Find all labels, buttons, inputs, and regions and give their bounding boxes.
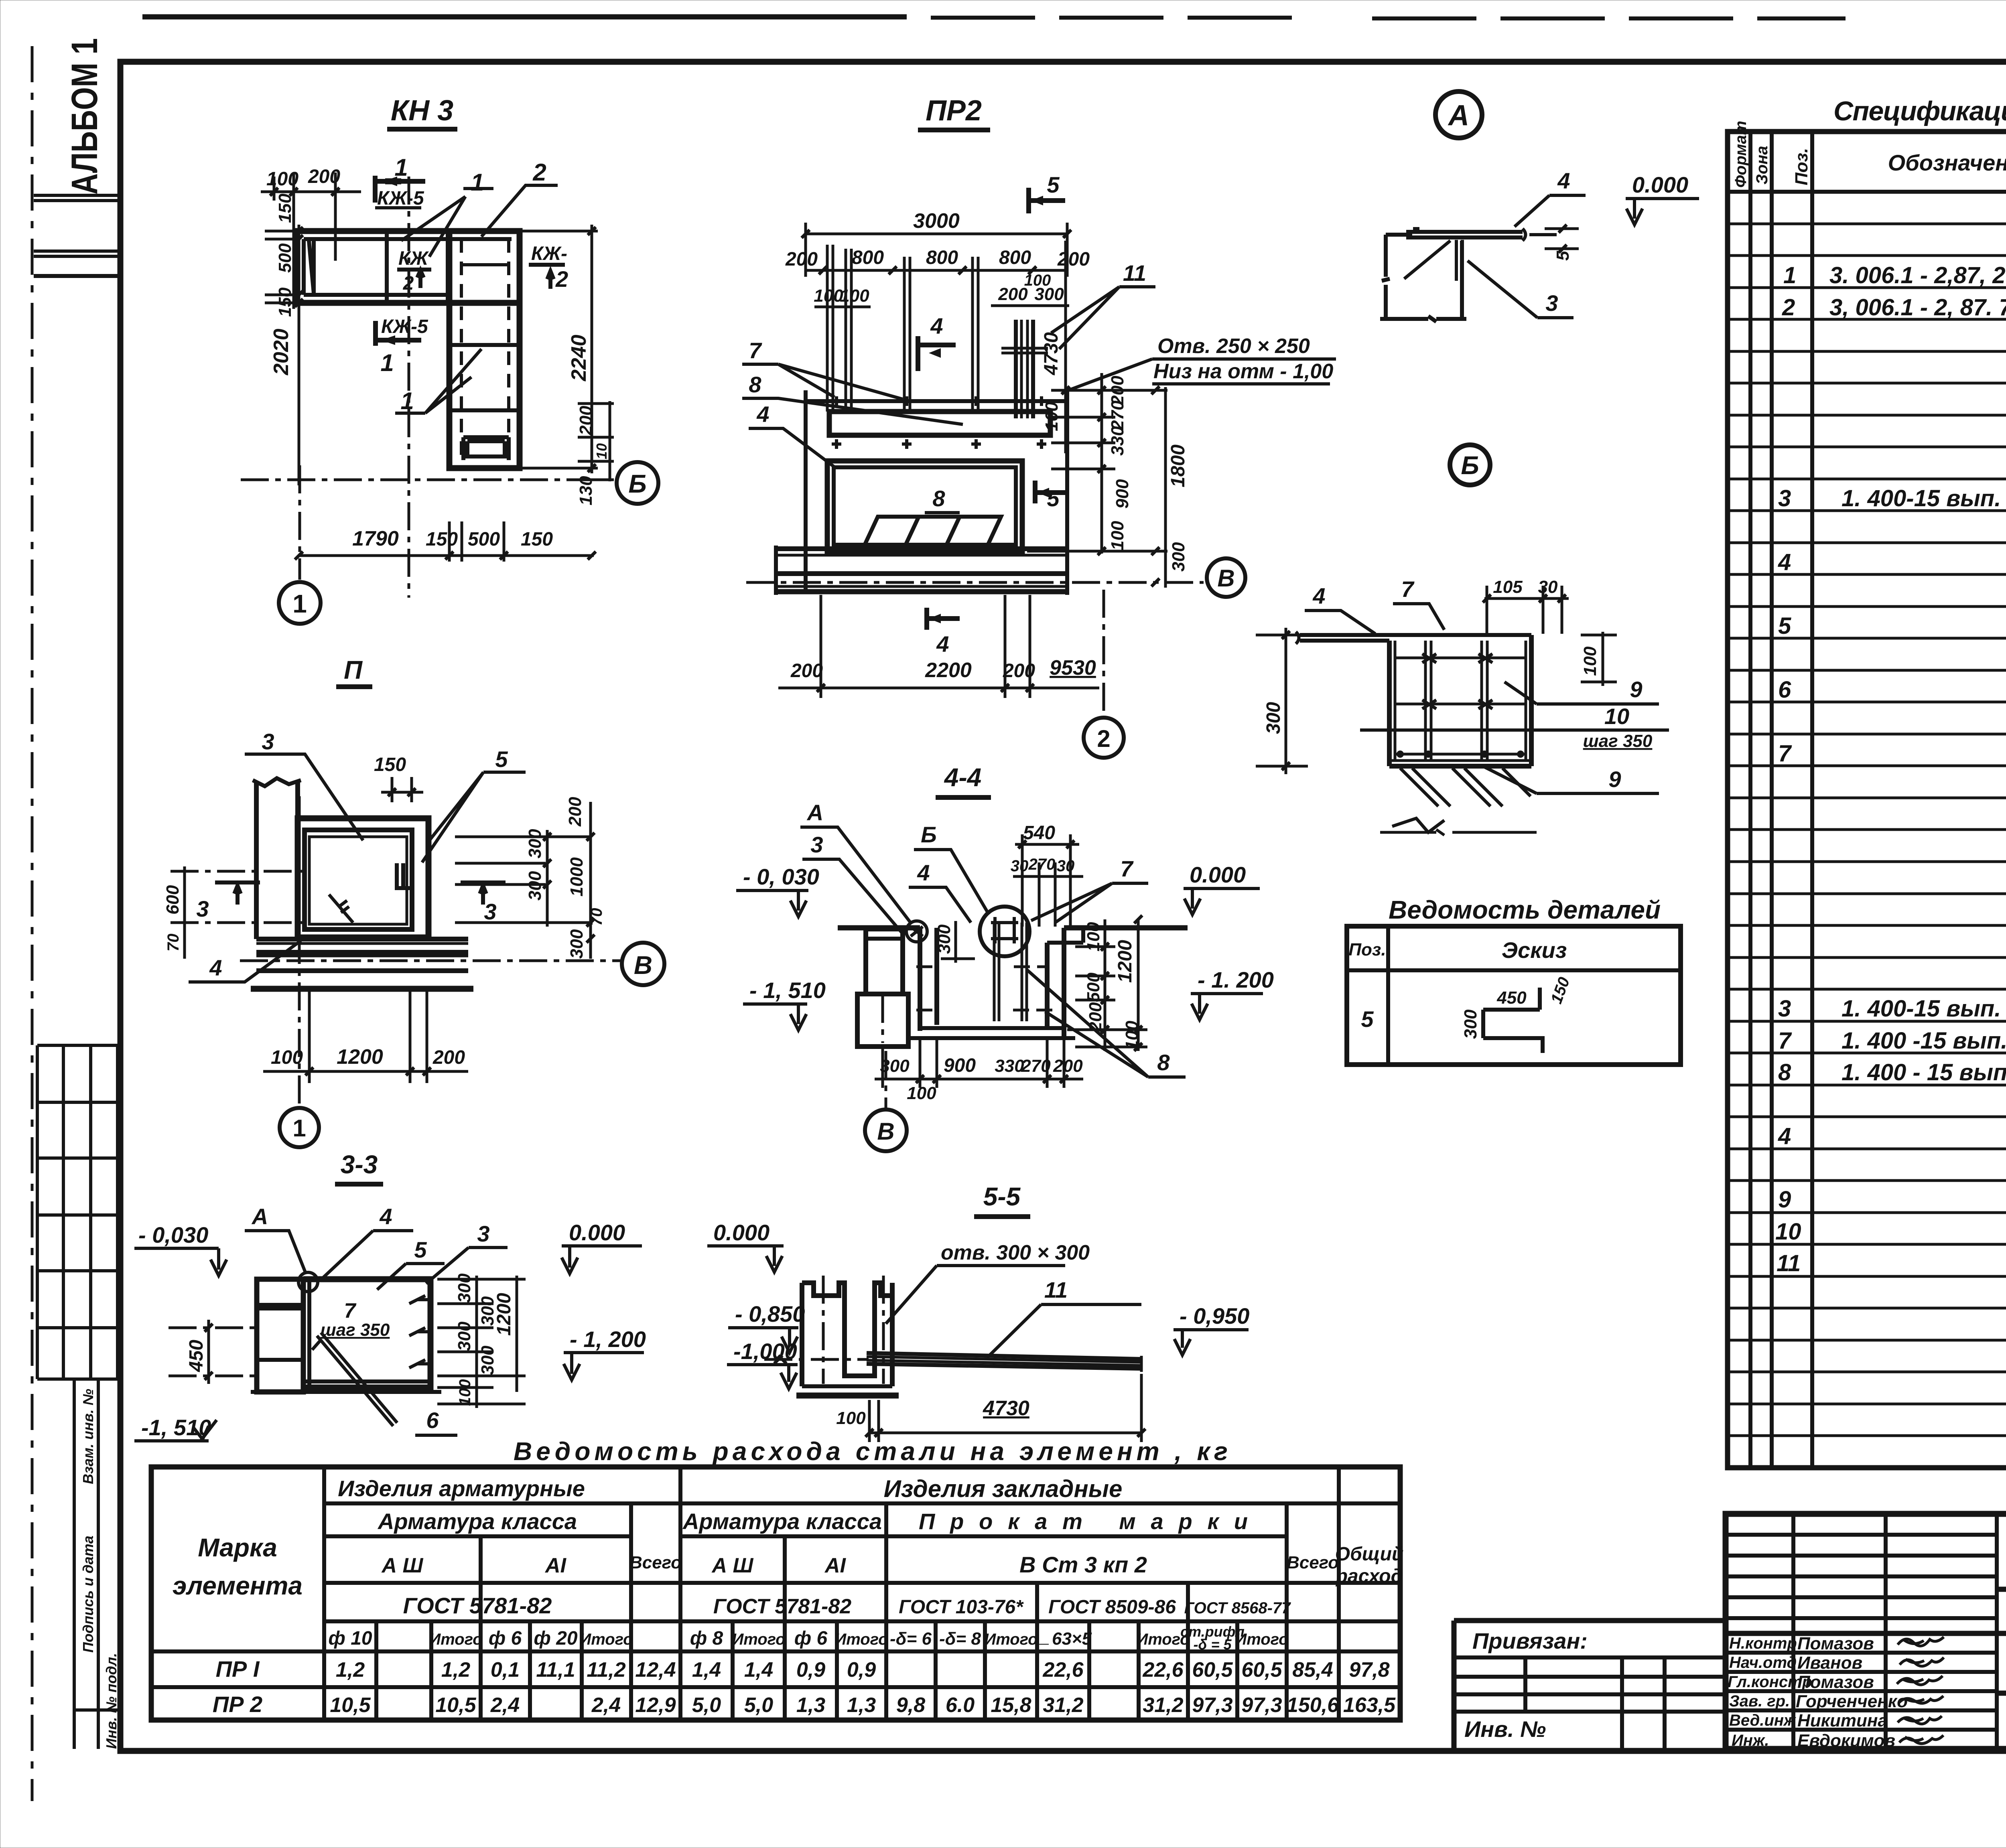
svg-text:1800: 1800 <box>1167 444 1189 487</box>
svg-text:ф 8: ф 8 <box>690 1628 723 1649</box>
svg-text:3: 3 <box>196 896 209 921</box>
svg-text:2020: 2020 <box>270 329 293 375</box>
svg-text:ф 6: ф 6 <box>489 1628 522 1649</box>
svg-text:8: 8 <box>932 486 945 511</box>
svg-text:163,5: 163,5 <box>1343 1694 1396 1717</box>
svg-text:3: 3 <box>1545 290 1558 316</box>
svg-text:- 0, 030: - 0, 030 <box>743 864 819 889</box>
svg-text:Спецификация канала КН3, пр: Спецификация канала КН3, приямков ПР1, П… <box>1833 96 2006 126</box>
svg-text:А: А <box>1448 99 1469 132</box>
svg-text:3: 3 <box>477 1221 489 1246</box>
svg-text:300: 300 <box>1263 702 1284 734</box>
svg-text:97,3: 97,3 <box>1192 1694 1232 1717</box>
svg-text:ГОСТ 5781-82: ГОСТ 5781-82 <box>713 1595 851 1618</box>
svg-text:АI: АI <box>544 1554 567 1577</box>
svg-text:2: 2 <box>1097 725 1110 752</box>
svg-text:2: 2 <box>1782 294 1795 321</box>
svg-text:5: 5 <box>1553 251 1573 261</box>
svg-text:330: 330 <box>995 1056 1024 1076</box>
svg-text:Изделия закладные: Изделия закладные <box>884 1475 1123 1502</box>
svg-text:15,8: 15,8 <box>991 1694 1031 1717</box>
svg-text:200: 200 <box>785 249 818 270</box>
svg-text:100: 100 <box>1108 521 1127 550</box>
svg-text:7: 7 <box>1778 1028 1792 1054</box>
svg-text:8: 8 <box>1157 1050 1170 1075</box>
svg-text:5: 5 <box>1047 172 1060 197</box>
svg-text:3: 3 <box>810 832 823 857</box>
svg-text:ПР2: ПР2 <box>926 95 982 127</box>
svg-text:800: 800 <box>926 247 958 268</box>
svg-text:300: 300 <box>455 1273 474 1303</box>
svg-text:∟63×5: ∟63×5 <box>1035 1629 1092 1649</box>
svg-text:150: 150 <box>275 193 295 223</box>
svg-text:- 1, 200: - 1, 200 <box>570 1327 646 1352</box>
svg-text:Итого: Итого <box>834 1631 888 1648</box>
svg-text:ПР 2: ПР 2 <box>213 1692 262 1717</box>
svg-text:1. 400 -15 вып. 1: 1. 400 -15 вып. 1 <box>1842 1028 2006 1054</box>
svg-text:500: 500 <box>1084 972 1103 1002</box>
svg-text:3: 3 <box>1778 485 1791 511</box>
svg-text:Поз.: Поз. <box>1348 940 1386 959</box>
svg-text:1200: 1200 <box>493 1293 515 1336</box>
svg-text:Горченченко: Горченченко <box>1796 1692 1908 1711</box>
svg-text:1: 1 <box>471 169 484 196</box>
svg-text:1,4: 1,4 <box>692 1658 721 1682</box>
svg-text:4730: 4730 <box>1041 332 1062 375</box>
svg-text:11,1: 11,1 <box>536 1658 575 1682</box>
svg-text:5,0: 5,0 <box>744 1694 773 1717</box>
svg-text:Б: Б <box>628 469 646 498</box>
svg-text:- 1. 200: - 1. 200 <box>1198 967 1274 992</box>
svg-text:2: 2 <box>555 266 568 292</box>
svg-text:800: 800 <box>999 247 1031 268</box>
svg-text:5: 5 <box>414 1237 427 1262</box>
svg-text:шаг 350: шаг 350 <box>1583 731 1653 751</box>
svg-text:200: 200 <box>1053 1056 1083 1076</box>
svg-text:3: 3 <box>1778 996 1791 1022</box>
svg-text:1: 1 <box>292 589 307 618</box>
svg-text:1. 400-15 вып. 1: 1. 400-15 вып. 1 <box>1842 485 2006 511</box>
svg-text:11: 11 <box>1123 260 1146 286</box>
svg-text:5: 5 <box>495 747 508 772</box>
svg-text:800: 800 <box>852 247 884 268</box>
svg-text:1. 400-15 вып. 1: 1. 400-15 вып. 1 <box>1842 996 2006 1022</box>
svg-text:элемента: элемента <box>173 1571 303 1600</box>
svg-text:2240: 2240 <box>567 335 591 381</box>
svg-text:300: 300 <box>934 924 954 954</box>
svg-text:4: 4 <box>917 860 930 885</box>
svg-text:150: 150 <box>1547 975 1573 1006</box>
svg-text:6.0: 6.0 <box>946 1694 975 1717</box>
svg-text:1: 1 <box>292 1115 306 1142</box>
svg-text:9: 9 <box>1778 1187 1791 1213</box>
svg-text:300: 300 <box>455 1321 474 1351</box>
svg-text:Зав. гр.: Зав. гр. <box>1729 1692 1790 1710</box>
svg-text:31,2: 31,2 <box>1043 1694 1083 1717</box>
svg-text:Подпись и дата: Подпись и дата <box>80 1536 96 1653</box>
svg-text:4: 4 <box>1778 549 1791 575</box>
svg-text:4: 4 <box>1557 168 1570 193</box>
svg-text:97,8: 97,8 <box>1349 1658 1389 1682</box>
svg-text:7: 7 <box>1778 740 1792 767</box>
svg-text:П: П <box>344 655 363 684</box>
svg-text:ф 6: ф 6 <box>794 1628 828 1649</box>
svg-text:Общий: Общий <box>1335 1544 1404 1565</box>
svg-text:Зона: Зона <box>1753 146 1771 185</box>
svg-text:10,5: 10,5 <box>330 1694 371 1717</box>
svg-text:9: 9 <box>1630 677 1642 702</box>
svg-text:150: 150 <box>521 529 553 550</box>
svg-text:3, 006.1 - 2, 87. 7: 3, 006.1 - 2, 87. 7 <box>1829 294 2006 321</box>
svg-text:22,6: 22,6 <box>1042 1658 1084 1682</box>
svg-text:4: 4 <box>379 1204 392 1229</box>
svg-text:200: 200 <box>565 797 585 827</box>
svg-text:отв. 300 × 300: отв. 300 × 300 <box>941 1241 1090 1264</box>
svg-text:4: 4 <box>209 955 222 980</box>
svg-text:150: 150 <box>275 287 295 317</box>
svg-text:Итого: Итого <box>429 1631 482 1648</box>
svg-text:АI: АI <box>824 1554 847 1577</box>
svg-text:9: 9 <box>1608 767 1621 792</box>
svg-text:Евдокимов: Евдокимов <box>1797 1731 1895 1751</box>
svg-text:В Ст 3 кп 2: В Ст 3 кп 2 <box>1019 1552 1147 1577</box>
svg-text:200: 200 <box>790 660 823 682</box>
svg-text:105: 105 <box>1493 577 1523 597</box>
svg-text:300: 300 <box>880 1056 910 1076</box>
svg-text:Всего: Всего <box>629 1553 682 1572</box>
svg-text:100: 100 <box>1084 922 1103 951</box>
svg-text:1: 1 <box>380 349 394 376</box>
svg-text:100: 100 <box>836 1408 866 1428</box>
svg-text:- 1, 510: - 1, 510 <box>749 978 826 1003</box>
svg-text:8: 8 <box>749 372 761 397</box>
svg-text:-1,000: -1,000 <box>733 1339 797 1364</box>
svg-text:1,4: 1,4 <box>744 1658 773 1682</box>
svg-text:Б: Б <box>1461 451 1479 480</box>
svg-text:1200: 1200 <box>337 1045 383 1069</box>
svg-text:9530: 9530 <box>1050 656 1096 680</box>
svg-text:10: 10 <box>593 443 610 459</box>
svg-text:300: 300 <box>1461 1009 1480 1039</box>
svg-text:Поз.: Поз. <box>1792 148 1811 185</box>
svg-text:3: 3 <box>484 899 496 924</box>
svg-text:А Ш: А Ш <box>711 1554 754 1577</box>
svg-text:Ведомость деталей: Ведомость деталей <box>1389 895 1661 924</box>
svg-text:Всего: Всего <box>1287 1553 1339 1572</box>
svg-text:10: 10 <box>1604 704 1629 729</box>
svg-text:Формат: Формат <box>1732 121 1750 188</box>
svg-text:ГОСТ 8568-77: ГОСТ 8568-77 <box>1184 1599 1291 1617</box>
svg-text:-δ = 5: -δ = 5 <box>1193 1636 1232 1653</box>
svg-text:540: 540 <box>1023 822 1055 844</box>
svg-text:11: 11 <box>1777 1250 1801 1276</box>
svg-text:В: В <box>877 1118 894 1145</box>
svg-text:0.000: 0.000 <box>569 1220 625 1245</box>
svg-text:60,5: 60,5 <box>1241 1658 1282 1682</box>
svg-text:70: 70 <box>164 934 182 952</box>
svg-text:шаг 350: шаг 350 <box>321 1320 390 1340</box>
svg-text:3000: 3000 <box>913 209 960 233</box>
svg-text:150: 150 <box>374 754 406 775</box>
svg-text:ф 20: ф 20 <box>534 1628 578 1649</box>
svg-text:100: 100 <box>456 1379 474 1406</box>
svg-text:5-5: 5-5 <box>983 1182 1021 1211</box>
svg-text:8: 8 <box>1778 1059 1791 1085</box>
svg-text:450: 450 <box>1496 988 1527 1008</box>
svg-text:10: 10 <box>1775 1219 1801 1245</box>
svg-text:12,4: 12,4 <box>635 1658 676 1682</box>
svg-text:4: 4 <box>930 313 943 339</box>
svg-text:270: 270 <box>1021 1056 1051 1076</box>
svg-text:22,6: 22,6 <box>1142 1658 1184 1682</box>
svg-text:-δ= 8: -δ= 8 <box>939 1629 981 1649</box>
svg-text:В: В <box>634 951 652 980</box>
svg-text:ГОСТ 103-76*: ГОСТ 103-76* <box>899 1596 1024 1618</box>
svg-text:150,6: 150,6 <box>1287 1694 1339 1717</box>
svg-text:2: 2 <box>532 159 546 186</box>
svg-text:Арматура класса: Арматура класса <box>682 1509 882 1534</box>
svg-text:1000: 1000 <box>567 857 587 897</box>
svg-text:1200: 1200 <box>1115 940 1136 983</box>
svg-text:КЖ-5: КЖ-5 <box>377 188 424 209</box>
svg-text:6: 6 <box>1778 677 1791 703</box>
svg-text:900: 900 <box>1113 479 1132 509</box>
svg-text:1790: 1790 <box>352 527 399 550</box>
svg-text:0.000: 0.000 <box>1632 172 1688 197</box>
svg-text:Б: Б <box>921 822 937 847</box>
svg-text:- 0,950: - 0,950 <box>1180 1303 1249 1329</box>
svg-text:7: 7 <box>344 1299 357 1323</box>
svg-text:ф 10: ф 10 <box>328 1628 372 1649</box>
svg-text:300: 300 <box>478 1345 497 1375</box>
svg-text:270: 270 <box>1028 856 1056 873</box>
svg-text:Арматура класса: Арматура класса <box>377 1509 577 1534</box>
svg-text:4-4: 4-4 <box>944 763 982 792</box>
svg-text:300: 300 <box>567 929 587 959</box>
svg-text:1: 1 <box>1783 262 1796 288</box>
svg-text:500: 500 <box>275 243 295 273</box>
svg-text:6: 6 <box>426 1408 439 1433</box>
svg-text:Иванов: Иванов <box>1797 1653 1862 1673</box>
svg-text:0,9: 0,9 <box>847 1658 876 1682</box>
svg-text:Итого: Итого <box>984 1631 1038 1648</box>
svg-text:Отв. 250 × 250: Отв. 250 × 250 <box>1157 335 1310 358</box>
svg-text:4: 4 <box>1778 1123 1791 1149</box>
svg-text:ГОСТ 5781-82: ГОСТ 5781-82 <box>403 1593 552 1618</box>
svg-text:500: 500 <box>468 529 500 550</box>
svg-text:200: 200 <box>1057 249 1090 270</box>
svg-text:1,3: 1,3 <box>847 1694 876 1717</box>
svg-text:200: 200 <box>1086 1002 1105 1032</box>
svg-text:100: 100 <box>840 286 869 306</box>
svg-text:1,2: 1,2 <box>336 1658 365 1682</box>
svg-text:600: 600 <box>163 885 183 915</box>
svg-text:Никитина: Никитина <box>1797 1711 1888 1730</box>
svg-text:1: 1 <box>400 387 414 414</box>
svg-text:150: 150 <box>426 529 458 550</box>
svg-text:Обозначение: Обозначение <box>1888 150 2006 175</box>
svg-text:5,0: 5,0 <box>692 1694 721 1717</box>
svg-text:4: 4 <box>1312 583 1325 609</box>
svg-text:270: 270 <box>1108 400 1127 430</box>
svg-text:12,9: 12,9 <box>635 1694 676 1717</box>
svg-text:Н.контр: Н.контр <box>1729 1635 1797 1652</box>
svg-text:КЖ-: КЖ- <box>531 243 567 264</box>
svg-text:2,4: 2,4 <box>490 1694 520 1717</box>
svg-text:11: 11 <box>1044 1277 1068 1302</box>
svg-text:4: 4 <box>756 402 769 427</box>
svg-text:30: 30 <box>1538 577 1558 597</box>
svg-text:1: 1 <box>394 154 408 181</box>
svg-text:- 0,850: - 0,850 <box>735 1301 805 1327</box>
svg-text:А: А <box>806 800 823 825</box>
svg-text:Прокат марки: Прокат марки <box>919 1509 1248 1534</box>
svg-text:Инв. № подл.: Инв. № подл. <box>103 1653 120 1749</box>
svg-text:- 0,030: - 0,030 <box>138 1222 208 1248</box>
svg-text:Итого: Итого <box>732 1631 785 1648</box>
svg-text:В: В <box>1217 565 1234 592</box>
svg-text:450: 450 <box>186 1340 207 1372</box>
svg-text:3-3: 3-3 <box>341 1150 378 1179</box>
svg-text:-δ= 6: -δ= 6 <box>890 1629 932 1649</box>
svg-text:85,4: 85,4 <box>1292 1658 1333 1682</box>
svg-text:Вед.инж: Вед.инж <box>1729 1712 1797 1729</box>
svg-text:2,4: 2,4 <box>591 1694 621 1717</box>
svg-text:Привязан:: Привязан: <box>1472 1628 1588 1653</box>
svg-text:4730: 4730 <box>983 1397 1029 1420</box>
svg-text:5: 5 <box>1361 1006 1374 1032</box>
svg-text:Взам. инв. №: Взам. инв. № <box>80 1389 96 1484</box>
svg-text:АЛЬБОМ 1: АЛЬБОМ 1 <box>64 38 105 195</box>
svg-text:КЖ-5: КЖ-5 <box>381 316 428 337</box>
svg-text:Эскиз: Эскиз <box>1502 937 1567 963</box>
svg-text:5: 5 <box>1047 486 1060 511</box>
svg-text:60,5: 60,5 <box>1192 1658 1233 1682</box>
svg-text:Нач.отд: Нач.отд <box>1729 1654 1797 1672</box>
svg-text:30: 30 <box>1011 857 1029 875</box>
svg-text:97,3: 97,3 <box>1241 1694 1282 1717</box>
svg-text:7: 7 <box>1120 856 1134 881</box>
svg-text:10,5: 10,5 <box>435 1694 476 1717</box>
svg-text:200: 200 <box>1003 660 1035 682</box>
svg-text:200: 200 <box>998 284 1028 304</box>
svg-text:Марка: Марка <box>198 1533 277 1562</box>
svg-text:0.000: 0.000 <box>713 1220 770 1245</box>
svg-text:7: 7 <box>749 338 762 363</box>
svg-text:1,2: 1,2 <box>441 1658 470 1682</box>
svg-text:900: 900 <box>944 1055 976 1076</box>
svg-text:1,3: 1,3 <box>796 1694 825 1717</box>
svg-text:11,2: 11,2 <box>587 1658 625 1682</box>
svg-text:КН 3: КН 3 <box>391 95 453 127</box>
svg-text:5: 5 <box>1778 613 1791 639</box>
svg-text:200: 200 <box>576 406 596 436</box>
svg-text:30: 30 <box>1057 857 1075 875</box>
svg-text:100: 100 <box>907 1083 936 1103</box>
svg-text:4: 4 <box>936 631 949 657</box>
svg-text:Итого: Итого <box>1235 1631 1288 1648</box>
svg-text:ГОСТ 8509-86: ГОСТ 8509-86 <box>1048 1596 1176 1618</box>
svg-text:300: 300 <box>525 829 545 858</box>
svg-text:1. 400 - 15 вып. 1: 1. 400 - 15 вып. 1 <box>1842 1059 2006 1085</box>
svg-text:0,9: 0,9 <box>796 1658 825 1682</box>
svg-text:Низ на отм - 1,00: Низ на отм - 1,00 <box>1153 360 1333 383</box>
svg-text:Изделия арматурные: Изделия арматурные <box>338 1476 585 1501</box>
svg-text:100: 100 <box>1580 646 1600 676</box>
svg-text:А: А <box>251 1204 268 1229</box>
svg-text:ПР I: ПР I <box>216 1656 260 1682</box>
svg-text:Инж.: Инж. <box>1732 1732 1769 1749</box>
svg-text:0,1: 0,1 <box>491 1658 520 1682</box>
svg-text:200: 200 <box>432 1047 465 1068</box>
svg-text:Помазов: Помазов <box>1797 1634 1874 1653</box>
svg-text:Инв. №: Инв. № <box>1464 1716 1546 1742</box>
svg-text:3. 006.1 - 2,87, 2-5: 3. 006.1 - 2,87, 2-5 <box>1829 262 2006 288</box>
svg-text:0.000: 0.000 <box>1190 862 1246 887</box>
svg-text:Итого: Итого <box>579 1631 633 1648</box>
svg-text:Помазов: Помазов <box>1797 1672 1874 1692</box>
svg-text:3: 3 <box>262 729 274 754</box>
svg-text:9,8: 9,8 <box>896 1694 925 1717</box>
svg-text:расход: расход <box>1335 1566 1403 1587</box>
svg-text:300: 300 <box>1169 542 1188 572</box>
svg-text:300: 300 <box>525 871 545 901</box>
svg-text:7: 7 <box>1401 576 1415 602</box>
svg-text:330: 330 <box>1108 426 1127 456</box>
svg-text:А Ш: А Ш <box>381 1554 424 1577</box>
svg-text:300: 300 <box>1034 284 1064 304</box>
svg-text:КЖ: КЖ <box>398 248 429 269</box>
svg-text:31,2: 31,2 <box>1143 1694 1183 1717</box>
svg-text:2200: 2200 <box>925 659 972 682</box>
